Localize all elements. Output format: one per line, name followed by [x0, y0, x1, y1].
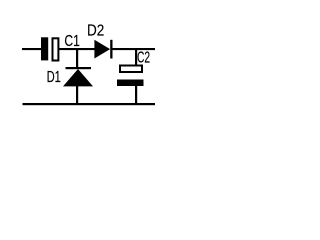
wire D1 anode to bottom rail	[76, 86, 78, 104]
diode D1 cathode bar	[66, 67, 92, 69]
wire left input to C1	[22, 48, 42, 50]
diode D1 triangle (anode, pointing up)	[63, 69, 93, 86]
diode D2 triangle (anode, pointing right)	[94, 40, 110, 59]
svg-text:C1: C1	[64, 32, 80, 50]
capacitor C1 hollow plate	[53, 38, 59, 60]
wire bottom rail	[23, 103, 156, 105]
wire C2 to bottom rail	[135, 86, 137, 104]
capacitor C2 filled plate (bottom)	[117, 80, 144, 87]
svg-text:C2: C2	[137, 48, 150, 66]
wire D2 to right end	[113, 48, 156, 50]
svg-text:D2: D2	[87, 23, 104, 40]
diode D2 cathode bar	[110, 40, 112, 59]
node junction down to D1	[76, 49, 78, 67]
wire C1 to D2	[59, 48, 95, 50]
node junction down to C2	[135, 49, 137, 65]
capacitor C1 filled plate	[41, 37, 48, 60]
capacitor C2 hollow plate (top)	[120, 66, 142, 73]
svg-text:D1: D1	[47, 67, 61, 86]
